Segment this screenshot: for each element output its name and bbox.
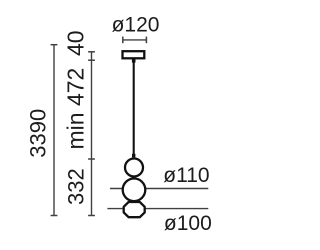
tick dia120 left <box>122 37 124 44</box>
dim line 3390 <box>53 45 55 216</box>
svg-text:ø110: ø110 <box>163 164 209 187</box>
tick lamp bottom <box>88 215 95 217</box>
leader line dia110 <box>110 188 208 190</box>
tick lamp top <box>88 158 95 160</box>
tick dia120 right <box>145 37 147 44</box>
tick 3390 top <box>51 44 58 46</box>
svg-text:min 472: min 472 <box>63 68 89 150</box>
svg-text:332: 332 <box>63 168 88 205</box>
leader line dia100 <box>107 208 208 210</box>
svg-text:ø100: ø100 <box>164 212 212 235</box>
top sphere <box>125 159 143 177</box>
diffuser octagon dia100 <box>124 202 145 217</box>
canopy <box>123 51 145 58</box>
dim line min472/332 <box>91 52 93 216</box>
canopy stem <box>132 59 136 63</box>
svg-text:3390: 3390 <box>25 109 50 158</box>
cord connector <box>132 154 135 158</box>
middle sphere dia110 <box>123 179 146 202</box>
tick 3390 bottom <box>51 215 58 217</box>
cable <box>133 60 135 157</box>
svg-text:40: 40 <box>62 30 88 56</box>
svg-text:ø120: ø120 <box>112 14 160 37</box>
dim line dia120 <box>123 39 147 41</box>
tick canopy top <box>88 51 95 53</box>
tick canopy bottom <box>88 59 95 61</box>
